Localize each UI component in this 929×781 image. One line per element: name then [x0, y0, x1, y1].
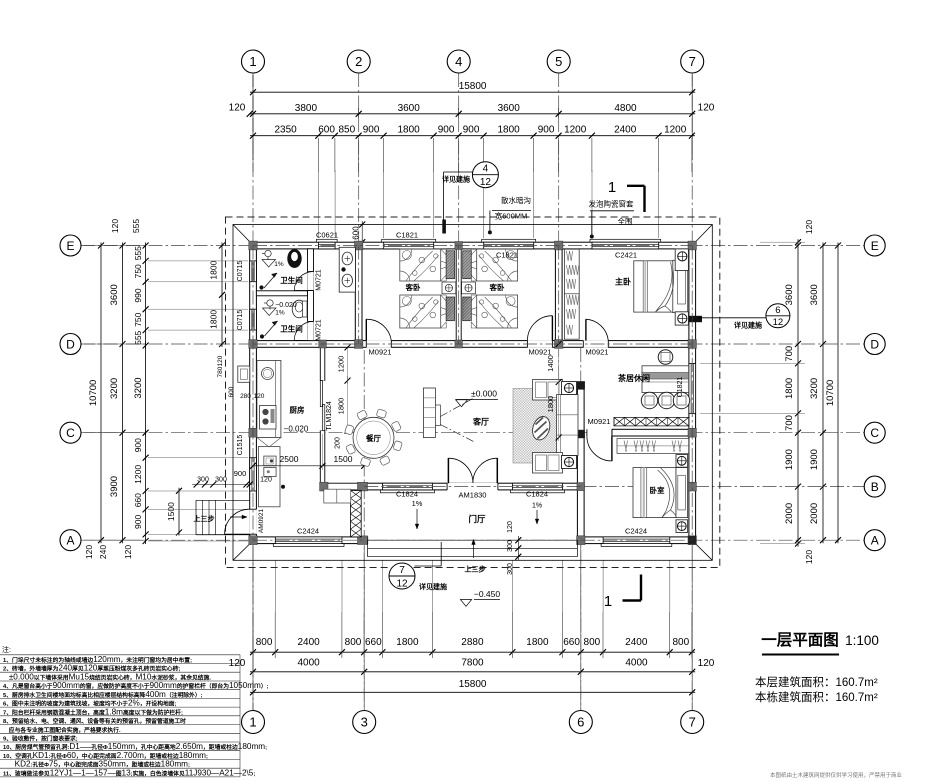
- svg-text:1800: 1800: [396, 637, 419, 648]
- column axis7/D: [688, 340, 696, 349]
- left dim 1500 entry: [178, 488, 180, 536]
- svg-text:E: E: [66, 239, 74, 253]
- axis centreline through wall 4: [458, 246, 460, 345]
- kitchen sink: [262, 368, 274, 380]
- svg-text:300: 300: [215, 477, 227, 484]
- svg-text:15800: 15800: [459, 81, 487, 92]
- exterior wall bottom-right section (axis A): [577, 537, 695, 544]
- master bed pillow: [677, 269, 685, 304]
- svg-text:TLM1824: TLM1824: [326, 401, 333, 431]
- door AM0921 side entry left wall: [249, 509, 257, 534]
- tea stool 3: [673, 392, 689, 408]
- svg-text:900: 900: [538, 125, 555, 136]
- svg-text:1: 1: [604, 593, 612, 610]
- black flue mark right wall: [689, 316, 702, 322]
- column axis6/B: [577, 483, 585, 491]
- svg-text:600: 600: [318, 125, 335, 136]
- slope arrow bathroom2: [265, 321, 278, 336]
- column axis5/E: [555, 241, 563, 250]
- svg-text:120: 120: [804, 220, 814, 234]
- kitchen-dining divider wall: [320, 347, 325, 380]
- svg-text:10700: 10700: [825, 380, 836, 406]
- general notes table: [0, 645, 269, 777]
- axis bubble A right: [864, 530, 885, 551]
- svg-text:3200: 3200: [133, 377, 144, 398]
- svg-text:−0.020: −0.020: [275, 302, 297, 309]
- left dim col 1800/1800 bathroom windows: [221, 243, 223, 348]
- svg-text:C1821: C1821: [496, 250, 518, 259]
- axis centreline through wall A left: [253, 539, 364, 541]
- svg-text:C1515: C1515: [237, 435, 244, 456]
- side porch steps left: [196, 499, 250, 501]
- svg-text:卧室: 卧室: [650, 485, 665, 495]
- svg-text:120: 120: [229, 103, 246, 114]
- window C0621 top wall: [316, 239, 337, 242]
- axis line 6: [580, 348, 582, 710]
- guest bed 2 nightstand: [462, 282, 476, 294]
- svg-text:M0721: M0721: [316, 269, 323, 291]
- kitchen flue box outside wall: [238, 366, 250, 382]
- TV cabinet: [423, 388, 435, 438]
- svg-text:1: 1: [608, 179, 616, 196]
- bedroom3 bed pillow: [678, 475, 686, 510]
- sofa side table south: [562, 456, 577, 469]
- door M0921 guest bedroom 2: [527, 340, 552, 348]
- svg-text:厨房: 厨房: [290, 405, 305, 415]
- axis centreline through wall D: [253, 343, 692, 345]
- svg-text:2: 2: [355, 54, 362, 69]
- section mark 1 top: [643, 186, 645, 212]
- svg-text:5: 5: [555, 54, 562, 69]
- window C0715 lower, left wall: [250, 309, 257, 330]
- sofa long seat east: [557, 395, 579, 456]
- svg-text:700: 700: [784, 415, 795, 431]
- svg-text:客厅: 客厅: [472, 417, 489, 427]
- svg-text:1%: 1%: [532, 503, 542, 510]
- door M0921 bedroom 3 (tea room wall): [587, 429, 612, 437]
- column axis3/B: [358, 482, 368, 491]
- svg-text:3200: 3200: [109, 378, 120, 399]
- svg-text:2500: 2500: [280, 454, 299, 464]
- svg-text:600: 600: [352, 226, 361, 240]
- axis centreline through wall 2: [358, 246, 360, 345]
- svg-text:1800: 1800: [526, 637, 549, 648]
- svg-text:900: 900: [463, 125, 480, 136]
- tea stool 1: [641, 392, 657, 408]
- axis bubble B right: [864, 476, 885, 497]
- svg-text:本图纸由土木建筑网提供仅供学习使用，严禁用于商业: 本图纸由土木建筑网提供仅供学习使用，严禁用于商业: [770, 771, 903, 779]
- top dim row axes 120/3800/3600/3600/4800/120: [250, 113, 695, 115]
- bedroom3 nightstand north: [676, 455, 688, 468]
- svg-text:7: 7: [689, 715, 696, 730]
- column axis3/A: [358, 536, 368, 545]
- interior wall C right section (tea/bedroom): [612, 429, 689, 436]
- svg-text:3: 3: [361, 715, 368, 730]
- sofa armchair north: [533, 380, 563, 401]
- exterior wall middle-south (axis B) foyer front: [361, 483, 584, 490]
- svg-text:C2424: C2424: [297, 527, 319, 536]
- toilet bathroom1 (black): [287, 249, 301, 268]
- svg-text:1800: 1800: [337, 398, 346, 415]
- planter box below B wall: [324, 489, 351, 503]
- svg-text:900: 900: [363, 125, 380, 136]
- svg-text:800: 800: [345, 637, 362, 648]
- svg-text:上三步: 上三步: [194, 514, 215, 523]
- shower head bathroom1: [265, 250, 271, 256]
- axis line A: [81, 539, 864, 541]
- svg-text:1900: 1900: [809, 449, 820, 470]
- bedroom3 closet X-band: [614, 417, 689, 426]
- svg-text:1%: 1%: [412, 499, 423, 508]
- window C1824 foyer east: [511, 490, 565, 493]
- bottom dim row 4000/7800/4000: [250, 671, 695, 673]
- black column tea wall north: [577, 381, 585, 389]
- svg-text:A: A: [871, 534, 879, 548]
- svg-text:900: 900: [133, 515, 143, 529]
- svg-text:4800: 4800: [614, 103, 637, 114]
- svg-text:555: 555: [133, 246, 143, 260]
- svg-text:详见建施: 详见建施: [734, 321, 762, 330]
- axis bubble 7 top: [681, 50, 704, 73]
- black column tea wall south: [577, 430, 585, 438]
- axis line 3: [363, 350, 365, 710]
- axis centreline through wall 7: [691, 246, 693, 541]
- kitchen small appliance 2: [264, 468, 276, 477]
- kitchen stove: [260, 406, 277, 430]
- black dot reference B: [281, 485, 285, 489]
- svg-text:4: 4: [455, 54, 462, 69]
- axis line 5: [558, 73, 560, 436]
- axis line E: [81, 245, 864, 247]
- left dim col overall 10700: [100, 243, 102, 544]
- column axis1/C: [249, 428, 257, 437]
- top dim row overall 15800: [250, 91, 695, 93]
- svg-text:C1821: C1821: [396, 230, 418, 239]
- column axis7/A: [688, 536, 696, 545]
- axis bubble C left: [60, 422, 81, 443]
- eave drain tick (black bar): [442, 220, 446, 234]
- axis line 1: [252, 73, 254, 710]
- label dining: [362, 432, 385, 443]
- splash apron solid outline (600mm): [233, 225, 712, 561]
- axis bubble D left: [60, 334, 81, 355]
- svg-text:1800: 1800: [497, 125, 520, 136]
- left dim col segments E-D and C-A: [145, 243, 147, 349]
- svg-text:应与各专业施工图配合实施，严格要求执行.: 应与各专业施工图配合实施，严格要求执行.: [3, 726, 121, 734]
- exterior wall left (axis 1): [250, 242, 257, 543]
- svg-text:1800: 1800: [546, 396, 555, 413]
- window C1824 foyer west: [381, 490, 435, 493]
- door AM1830 main entry (double): [447, 483, 498, 491]
- svg-text:客卧: 客卧: [405, 282, 421, 292]
- svg-text:3600: 3600: [498, 103, 521, 114]
- svg-text:1800: 1800: [397, 125, 420, 136]
- svg-text:750: 750: [133, 312, 143, 326]
- bedroom west wall axis 6: [577, 436, 584, 537]
- svg-text:990: 990: [133, 288, 143, 302]
- slope arrow bathroom1: [264, 273, 277, 288]
- kitchen small appliance 1: [264, 456, 276, 466]
- stair hall cabinet block: [258, 447, 280, 507]
- arrow up porch: [473, 540, 475, 559]
- svg-text:3600: 3600: [784, 284, 795, 305]
- svg-text:宽600MM: 宽600MM: [495, 211, 528, 221]
- eave corner diagonal bottom-right: [695, 544, 712, 561]
- svg-text:A: A: [66, 534, 74, 548]
- column divider/B: [320, 482, 328, 491]
- bedroom3 blanket band: [640, 468, 642, 518]
- svg-text:D: D: [870, 337, 879, 351]
- bedroom3 quilt fold: [658, 470, 670, 517]
- svg-text:−0.020: −0.020: [284, 425, 309, 434]
- svg-text:7: 7: [399, 565, 405, 576]
- B wall left stub (kitchen to porch column): [325, 483, 364, 490]
- coffee table oval: [530, 414, 553, 442]
- svg-text:4: 4: [483, 164, 489, 175]
- svg-text:2880: 2880: [461, 637, 484, 648]
- window C2424 bottom-right: [601, 544, 672, 547]
- svg-text:280: 280: [240, 393, 251, 400]
- master bed blanket band: [642, 261, 644, 312]
- svg-text:发泡陶瓷窗套: 发泡陶瓷窗套: [589, 199, 634, 209]
- svg-text:1500: 1500: [334, 454, 353, 464]
- bottom dim row segments: [250, 651, 695, 653]
- window C0715 upper, left wall: [250, 261, 257, 282]
- toilet bathroom2 (outline): [292, 300, 306, 318]
- kitchen counter strip: [257, 361, 281, 438]
- svg-text:详见建施: 详见建施: [419, 582, 447, 591]
- guest bed 1 pillows: [446, 251, 455, 279]
- axis bubble 5 top: [547, 50, 570, 73]
- column axis6/A: [577, 536, 585, 545]
- svg-text:1%: 1%: [275, 310, 285, 317]
- living/tea wall stub axis 6: [577, 382, 584, 438]
- axis line 7: [691, 73, 693, 710]
- svg-text:C2421: C2421: [615, 250, 637, 259]
- right dim extension lines: [700, 362, 805, 364]
- svg-text:660: 660: [133, 493, 143, 507]
- svg-text:555: 555: [133, 330, 143, 344]
- svg-text:120: 120: [254, 393, 265, 400]
- svg-text:2000: 2000: [784, 503, 795, 524]
- left dim col axis 3600/3200/3900: [122, 243, 124, 544]
- svg-text:600: 600: [228, 386, 235, 397]
- interior wall axis 2 (bath block east): [355, 246, 362, 345]
- svg-text:餐厅: 餐厅: [365, 433, 381, 443]
- svg-text:2400: 2400: [297, 637, 320, 648]
- svg-text:200: 200: [335, 437, 342, 449]
- right dim col overall 10700: [837, 243, 839, 544]
- svg-text:1900: 1900: [784, 449, 795, 470]
- bathroom partition wall: [256, 291, 307, 296]
- svg-text:120: 120: [698, 658, 715, 669]
- bathroom east wall: [308, 249, 314, 341]
- axis line C: [81, 432, 864, 434]
- master bed quilt fold: [656, 262, 673, 312]
- axis bubble A left: [60, 530, 81, 551]
- guest bed 2 (east room): [477, 249, 518, 281]
- svg-text:900: 900: [438, 125, 455, 136]
- svg-text:茶居休闲: 茶居休闲: [617, 373, 650, 383]
- svg-text:C: C: [870, 426, 879, 440]
- guest bed 1 nightstand: [442, 282, 456, 294]
- svg-text:1: 1: [249, 54, 256, 69]
- eave corner diagonal top-right: [695, 225, 712, 243]
- window C2424 bottom-left: [273, 544, 344, 547]
- svg-text:散水暗沟: 散水暗沟: [501, 195, 531, 205]
- axis bubble C right: [864, 422, 885, 443]
- axis bubble 7 bottom: [681, 711, 704, 734]
- bottom dim extension lines: [252, 612, 254, 658]
- bedroom3 nightstand south: [676, 520, 688, 533]
- svg-text:客卧: 客卧: [489, 282, 505, 292]
- svg-text:120: 120: [698, 103, 715, 114]
- column axis4/D: [455, 340, 463, 348]
- svg-text:M0921: M0921: [588, 417, 611, 426]
- tea table: [642, 366, 689, 393]
- column axis7/C: [688, 428, 696, 437]
- dim line 2500/1500 kitchen: [253, 465, 364, 467]
- svg-text:300: 300: [507, 563, 514, 575]
- interior wall D (corridor): [250, 341, 696, 348]
- svg-text:1200: 1200: [564, 125, 587, 136]
- column axis1/A: [249, 536, 257, 545]
- svg-text:1400: 1400: [546, 355, 555, 372]
- master wardrobe strip: [564, 249, 579, 339]
- svg-text:C0715: C0715: [237, 310, 244, 331]
- svg-text:120: 120: [84, 545, 94, 559]
- svg-text:D: D: [66, 337, 75, 351]
- svg-text:C: C: [66, 426, 75, 440]
- slope triangle bathroom1: [262, 260, 276, 268]
- axis centreline through wall B: [364, 486, 581, 488]
- svg-text:卫生间: 卫生间: [280, 324, 303, 334]
- svg-text:900: 900: [133, 438, 143, 452]
- svg-text:12: 12: [480, 177, 492, 188]
- shower head bathroom2: [267, 300, 273, 306]
- svg-text:15800: 15800: [459, 679, 487, 690]
- svg-text:120: 120: [260, 477, 272, 484]
- axis line B: [560, 486, 864, 488]
- svg-text:卫生间: 卫生间: [280, 275, 303, 285]
- callout 4/12 detail circle: [472, 162, 498, 188]
- exterior wall right (axis 7): [689, 242, 696, 543]
- svg-text:B: B: [871, 480, 879, 494]
- svg-text:门厅: 门厅: [468, 514, 486, 524]
- right dim col axis 3600/3200/1900/2000: [822, 243, 824, 544]
- master nightstand south: [675, 312, 688, 325]
- svg-text:1%: 1%: [274, 261, 284, 268]
- axis line 4: [458, 73, 460, 250]
- foyer porch steps (three lines): [368, 539, 578, 541]
- svg-text:1: 1: [249, 715, 256, 730]
- door M0921 guest bedroom 1: [366, 340, 391, 348]
- svg-text:AM1830: AM1830: [459, 491, 487, 500]
- bottom dim row overall 15800: [250, 691, 695, 693]
- sofa armchair south: [533, 453, 563, 474]
- svg-text:本栋建筑面积：160.7m²: 本栋建筑面积：160.7m²: [755, 690, 878, 704]
- column axis1/D: [249, 340, 257, 349]
- master bed: [634, 261, 673, 312]
- sliding door TLM1824 kitchen: [320, 381, 325, 431]
- svg-text:注:: 注:: [2, 645, 11, 654]
- axis bubble E right: [864, 235, 885, 256]
- svg-text:−0.450: −0.450: [474, 589, 501, 599]
- sofa side table north: [562, 382, 577, 395]
- bedroom3 wardrobe rod and hangers: [617, 439, 689, 454]
- guest bed 2 pillows: [463, 251, 472, 279]
- svg-text:M0721: M0721: [316, 319, 323, 341]
- svg-text:6: 6: [775, 305, 780, 316]
- axis centreline through wall A right: [581, 539, 692, 541]
- column divider/D: [319, 340, 327, 348]
- porch column lattice at axis3: [351, 491, 362, 537]
- svg-text:±0.000: ±0.000: [471, 389, 497, 399]
- svg-text:120: 120: [804, 550, 814, 564]
- column axis5/D: [555, 340, 563, 349]
- interior wall axis 5 (master west): [555, 246, 562, 345]
- window C1821 right wall tea room: [689, 363, 696, 413]
- svg-text:120: 120: [110, 219, 120, 233]
- door M0921 master bedroom: [583, 340, 608, 348]
- svg-text:1200: 1200: [133, 465, 143, 484]
- svg-text:2400: 2400: [625, 637, 648, 648]
- svg-text:E: E: [871, 239, 879, 253]
- window C2421 top wall master: [590, 239, 661, 242]
- svg-text:C0621: C0621: [316, 230, 338, 239]
- svg-text:M0921: M0921: [529, 348, 552, 357]
- axis line D: [81, 343, 864, 345]
- axis line 2: [358, 73, 360, 348]
- eave corner diagonal top-left: [233, 225, 250, 243]
- axis bubble 2 top: [347, 50, 370, 73]
- left dim extension lines: [148, 260, 248, 262]
- guest bedroom partition axis 4: [456, 249, 461, 341]
- svg-text:9、验收敷件，按门窗表要求;: 9、验收敷件，按门窗表要求;: [3, 735, 78, 743]
- tea stool 2: [658, 392, 674, 408]
- axis bubble 1 bottom: [242, 711, 265, 734]
- top dim row segments: [250, 135, 695, 137]
- section mark 1 bottom: [640, 575, 642, 601]
- svg-text:555: 555: [131, 219, 141, 233]
- roof overhang dashed outline: [226, 217, 720, 568]
- svg-text:1800: 1800: [784, 378, 795, 399]
- dim 120/300/300 porch steps: [517, 536, 519, 560]
- svg-text:10700: 10700: [88, 380, 99, 406]
- door M0721 bathroom 2: [307, 321, 313, 340]
- axis bubble 1 top: [242, 50, 265, 73]
- svg-text:3600: 3600: [398, 103, 421, 114]
- svg-text:2000: 2000: [809, 503, 820, 524]
- dining round table: [353, 417, 394, 458]
- axis bubble 3 bottom: [353, 711, 376, 734]
- column axis7/E: [688, 241, 696, 250]
- column axis1/E: [249, 241, 257, 250]
- svg-text:660: 660: [563, 637, 580, 648]
- svg-text:3600: 3600: [809, 284, 820, 305]
- svg-text:240: 240: [98, 545, 108, 559]
- svg-text:700: 700: [784, 346, 795, 362]
- svg-text:1200: 1200: [664, 125, 687, 136]
- svg-text:300: 300: [507, 540, 514, 552]
- axis centreline through wall E: [253, 245, 692, 247]
- top dim extension lines: [252, 138, 254, 172]
- arrow to side door: [230, 516, 247, 518]
- master nightstand north: [675, 249, 688, 271]
- svg-text:660: 660: [365, 637, 382, 648]
- svg-text:780: 780: [217, 366, 224, 377]
- svg-text:2350: 2350: [274, 125, 297, 136]
